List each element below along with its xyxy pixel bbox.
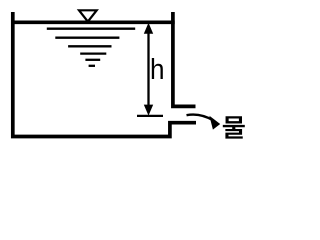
tank right wall and outlet upper lip bbox=[173, 12, 196, 106]
water surface hatch line 4 bbox=[80, 52, 106, 54]
lower datum tick line bbox=[137, 115, 163, 117]
water jet arrowhead bbox=[209, 116, 220, 130]
water level triangle symbol bbox=[79, 10, 97, 21]
water surface hatch line 5 bbox=[85, 59, 100, 61]
water surface hatch line 3 bbox=[68, 45, 111, 47]
h dimension bottom arrowhead bbox=[144, 105, 153, 116]
water surface hatch line 6 bbox=[89, 65, 95, 67]
water surface hatch line 1 bbox=[47, 28, 135, 30]
korean label "물" (water) drawn as vector outline bbox=[223, 116, 245, 138]
water jet curved arrow shaft bbox=[187, 115, 214, 121]
tank left wall and bottom with outlet step and lower lip bbox=[13, 12, 196, 137]
label h bbox=[150, 54, 165, 87]
h dimension arrow shaft bbox=[147, 28, 149, 112]
water surface hatch line 2 bbox=[55, 37, 119, 39]
h dimension top arrowhead bbox=[144, 23, 153, 34]
tank top line (water surface datum) bbox=[11, 20, 175, 24]
